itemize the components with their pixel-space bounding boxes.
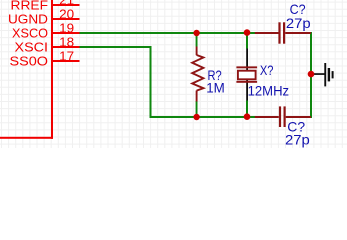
- resistor R? zigzag body: [192, 55, 203, 91]
- svg-text:27p: 27p: [285, 131, 310, 147]
- ground bar 3 (short): [332, 71, 334, 78]
- capacitor C? (bottom) right lead: [286, 116, 311, 118]
- resistor R? leads: [192, 47, 203, 102]
- svg-text:XSCI: XSCI: [15, 41, 49, 55]
- svg-text:RREF: RREF: [11, 0, 49, 13]
- pin 18 XSCI stub: [51, 46, 80, 48]
- svg-text:SS0O: SS0O: [10, 55, 49, 69]
- junction: top rail / crystal: [244, 29, 251, 36]
- wire: resistor top connect: [196, 33, 198, 47]
- svg-text:27p: 27p: [286, 15, 311, 31]
- IC U? body edge (right side of part, rest off-canvas): [0, 0, 53, 139]
- junction: bottom rail / crystal: [244, 113, 251, 120]
- capacitor C? (top) left lead: [255, 32, 279, 34]
- pin 21 RREF stub: [51, 4, 80, 6]
- svg-text:X?: X?: [260, 62, 274, 78]
- capacitor C? (bottom) right plate: [284, 106, 286, 127]
- capacitor C? (top) right plate: [283, 22, 285, 43]
- svg-text:17: 17: [59, 49, 74, 63]
- wire: XSCO top rail: [80, 32, 256, 34]
- junction: top rail / resistor: [193, 30, 199, 36]
- capacitor C? (bottom) left lead: [255, 116, 279, 118]
- wire: resistor bottom connect: [196, 101, 198, 117]
- capacitor C? (top) left plate: [278, 22, 280, 43]
- svg-text:XSCO: XSCO: [12, 27, 48, 41]
- junction: bottom rail / resistor: [193, 114, 199, 120]
- crystal X? lead (vertical through body): [246, 49, 248, 101]
- svg-text:20: 20: [59, 7, 74, 21]
- svg-text:21: 21: [59, 0, 74, 7]
- pin 17 SS0O stub: [51, 60, 80, 62]
- ground bar 1 (tall): [324, 63, 326, 86]
- svg-text:1M: 1M: [206, 79, 225, 95]
- pin 20 UGND stub: [51, 18, 80, 20]
- grid background: [0, 0, 347, 148]
- crystal X? bottom plate: [236, 81, 257, 83]
- wire: crystal top connect: [246, 33, 248, 49]
- svg-text:UGND: UGND: [8, 13, 48, 27]
- ground bar 2 (medium): [328, 68, 330, 81]
- ground symbol stem: [311, 73, 325, 75]
- wire: XSCI vertical drop: [150, 46, 152, 118]
- capacitor C? (top) right lead: [285, 32, 311, 34]
- svg-text:18: 18: [59, 35, 74, 49]
- wire: right vertical (cap C top to cap C bottom via ground): [310, 32, 312, 118]
- capacitor C? (bottom) left plate: [279, 106, 281, 127]
- wire: crystal bottom connect: [246, 101, 248, 118]
- svg-text:12MHz: 12MHz: [248, 82, 290, 98]
- wire: XSCI horizontal: [80, 46, 152, 48]
- crystal X? top plate: [236, 66, 257, 68]
- svg-text:19: 19: [59, 21, 74, 35]
- crystal X? body rectangle: [238, 71, 256, 80]
- wire: bottom rail: [150, 116, 256, 118]
- junction: ground tap: [308, 71, 315, 78]
- pin 19 XSCO stub: [51, 32, 80, 34]
